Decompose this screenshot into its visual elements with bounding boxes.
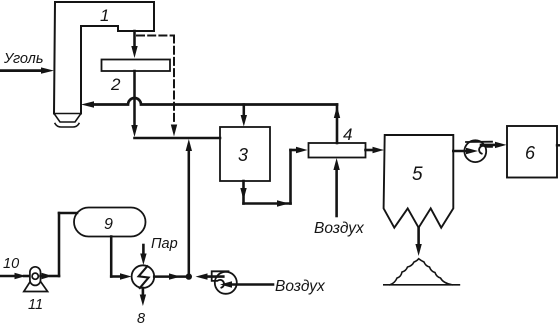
svg-text:Пар: Пар [151,236,178,252]
svg-text:Уголь: Уголь [3,51,44,67]
wire: furnace 5 to exhaust fan (arrow right) [453,148,478,154]
box 6 [507,126,557,178]
riser from separator 4 to main line (arrow up) [334,105,340,144]
coal feed arrow [0,67,54,73]
wire: box 3 out, down right up into separator 4 [240,147,307,207]
wire: pump to drum 9 (arrow right, then up) [41,213,78,279]
svg-text:11: 11 [28,297,43,313]
svg-text:Воздух: Воздух [314,220,365,237]
air line into box 3 [135,137,221,140]
wire: separator 4 to furnace 5 (arrow right) [366,147,385,153]
dashed line arrowhead [171,125,177,137]
wire: duct 1 down to feeder 2 (arrow down) [131,31,137,58]
box 3 [220,127,270,181]
svg-text:3: 3 [238,145,248,165]
svg-text:8: 8 [137,311,145,327]
svg-text:4: 4 [343,125,352,144]
pump 11 (capsule on triangle base) [24,267,48,292]
furnace 5 outline with zigzag bottom [384,135,454,228]
svg-text:6: 6 [525,143,536,163]
wire: drum 9 down and right to heater (arrow right) [111,237,131,280]
feed arrow 10 into pump [0,273,30,279]
dish under funnel [55,124,79,128]
svg-text:10: 10 [3,256,19,272]
svg-text:9: 9 [104,216,113,233]
funnel of shaft 1 [54,114,81,123]
ash pile mound [384,259,460,285]
svg-text:1: 1 [100,6,109,25]
feeder 2 [102,60,171,72]
heater (steam air heater) circle with zigzag [132,265,155,288]
ash arrow down from furnace 5 [415,228,421,256]
condensate arrow 8 down from heater [140,288,146,306]
separator 4 [309,143,366,158]
stub out of box 6 [557,144,560,146]
branch arrow down into box 3 [241,105,247,127]
exhaust fan circle with outlet [464,140,492,162]
wire: fan to box 6 (arrow right) [481,142,507,148]
riser: junction up to air line (arrow up) [186,139,192,277]
air intake arrow into fan [220,281,273,287]
main return line with hop, arrow left into shaft 1 [81,98,337,108]
steam arrow into heater [140,245,146,265]
air arrow up into separator 4 [333,158,339,216]
wire: feeder 2 down to air line (arrow down at end) [131,71,137,137]
svg-text:Воздух: Воздух [275,278,326,295]
dryer shaft / duct 1 outline [54,2,154,114]
junction node [186,273,192,279]
fan outlet arrow left into junction [196,273,224,279]
dashed bypass line from duct to air line [137,36,174,126]
svg-text:5: 5 [412,164,423,185]
air fan (blower) circle with outlet to left [212,271,237,294]
drum 9 [74,208,146,237]
svg-text:2: 2 [110,75,121,94]
wire: heater to junction (arrow right) [154,273,189,279]
